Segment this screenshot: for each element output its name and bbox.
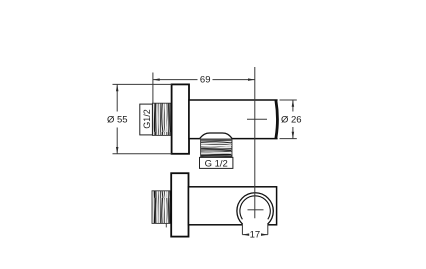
arrow d26 top <box>292 100 295 107</box>
arrow 17 right <box>261 233 268 236</box>
extension lines d55 <box>113 84 172 153</box>
thread inlet bottom (hatched) <box>152 191 171 224</box>
holder center tick <box>248 209 264 211</box>
dimension line 17 <box>242 234 267 236</box>
G1/2 label box <box>140 104 153 135</box>
svg-text:G1/2: G1/2 <box>142 109 152 129</box>
extension lines d26 <box>280 100 297 139</box>
holder outer ring <box>237 193 273 224</box>
arrow 69 right <box>248 78 255 81</box>
dimension line d55 <box>116 84 118 153</box>
wall flange bottom view <box>171 173 188 236</box>
dimension line d26 <box>292 100 294 139</box>
arrow d26 bottom <box>292 132 295 139</box>
holder opening left wall <box>241 223 243 235</box>
pipe end cap <box>276 100 278 138</box>
svg-text:17: 17 <box>250 230 261 241</box>
svg-text:Ø 26: Ø 26 <box>281 115 302 126</box>
extension line at thread end for 69 <box>152 73 154 104</box>
pipe center tick <box>247 118 267 120</box>
body bottom view <box>189 187 277 225</box>
arrow 17 left <box>242 233 249 236</box>
pipe body <box>189 100 278 139</box>
dimension line 69 <box>153 79 255 81</box>
outlet thread G1/2 (hatched) <box>201 139 232 156</box>
svg-text:69: 69 <box>200 75 211 86</box>
thread G1/2 inlet (hatched) <box>152 103 171 135</box>
holder opening right wall <box>267 223 269 235</box>
svg-text:G 1/2: G 1/2 <box>205 158 228 169</box>
wall flange top view <box>172 84 189 153</box>
label diameter 26 backing <box>282 113 302 125</box>
arrow d55 bottom <box>116 147 119 154</box>
svg-text:Ø 55: Ø 55 <box>107 115 128 126</box>
arrow 69 left <box>153 78 160 81</box>
holder cup mask <box>237 193 273 229</box>
G 1/2 label box <box>200 157 233 168</box>
holder inner ring <box>240 196 270 220</box>
thread tail mark <box>165 223 167 227</box>
centerline of outlet and holder <box>254 67 256 218</box>
outlet boss hump <box>200 133 233 139</box>
arrow d55 top <box>116 84 119 91</box>
